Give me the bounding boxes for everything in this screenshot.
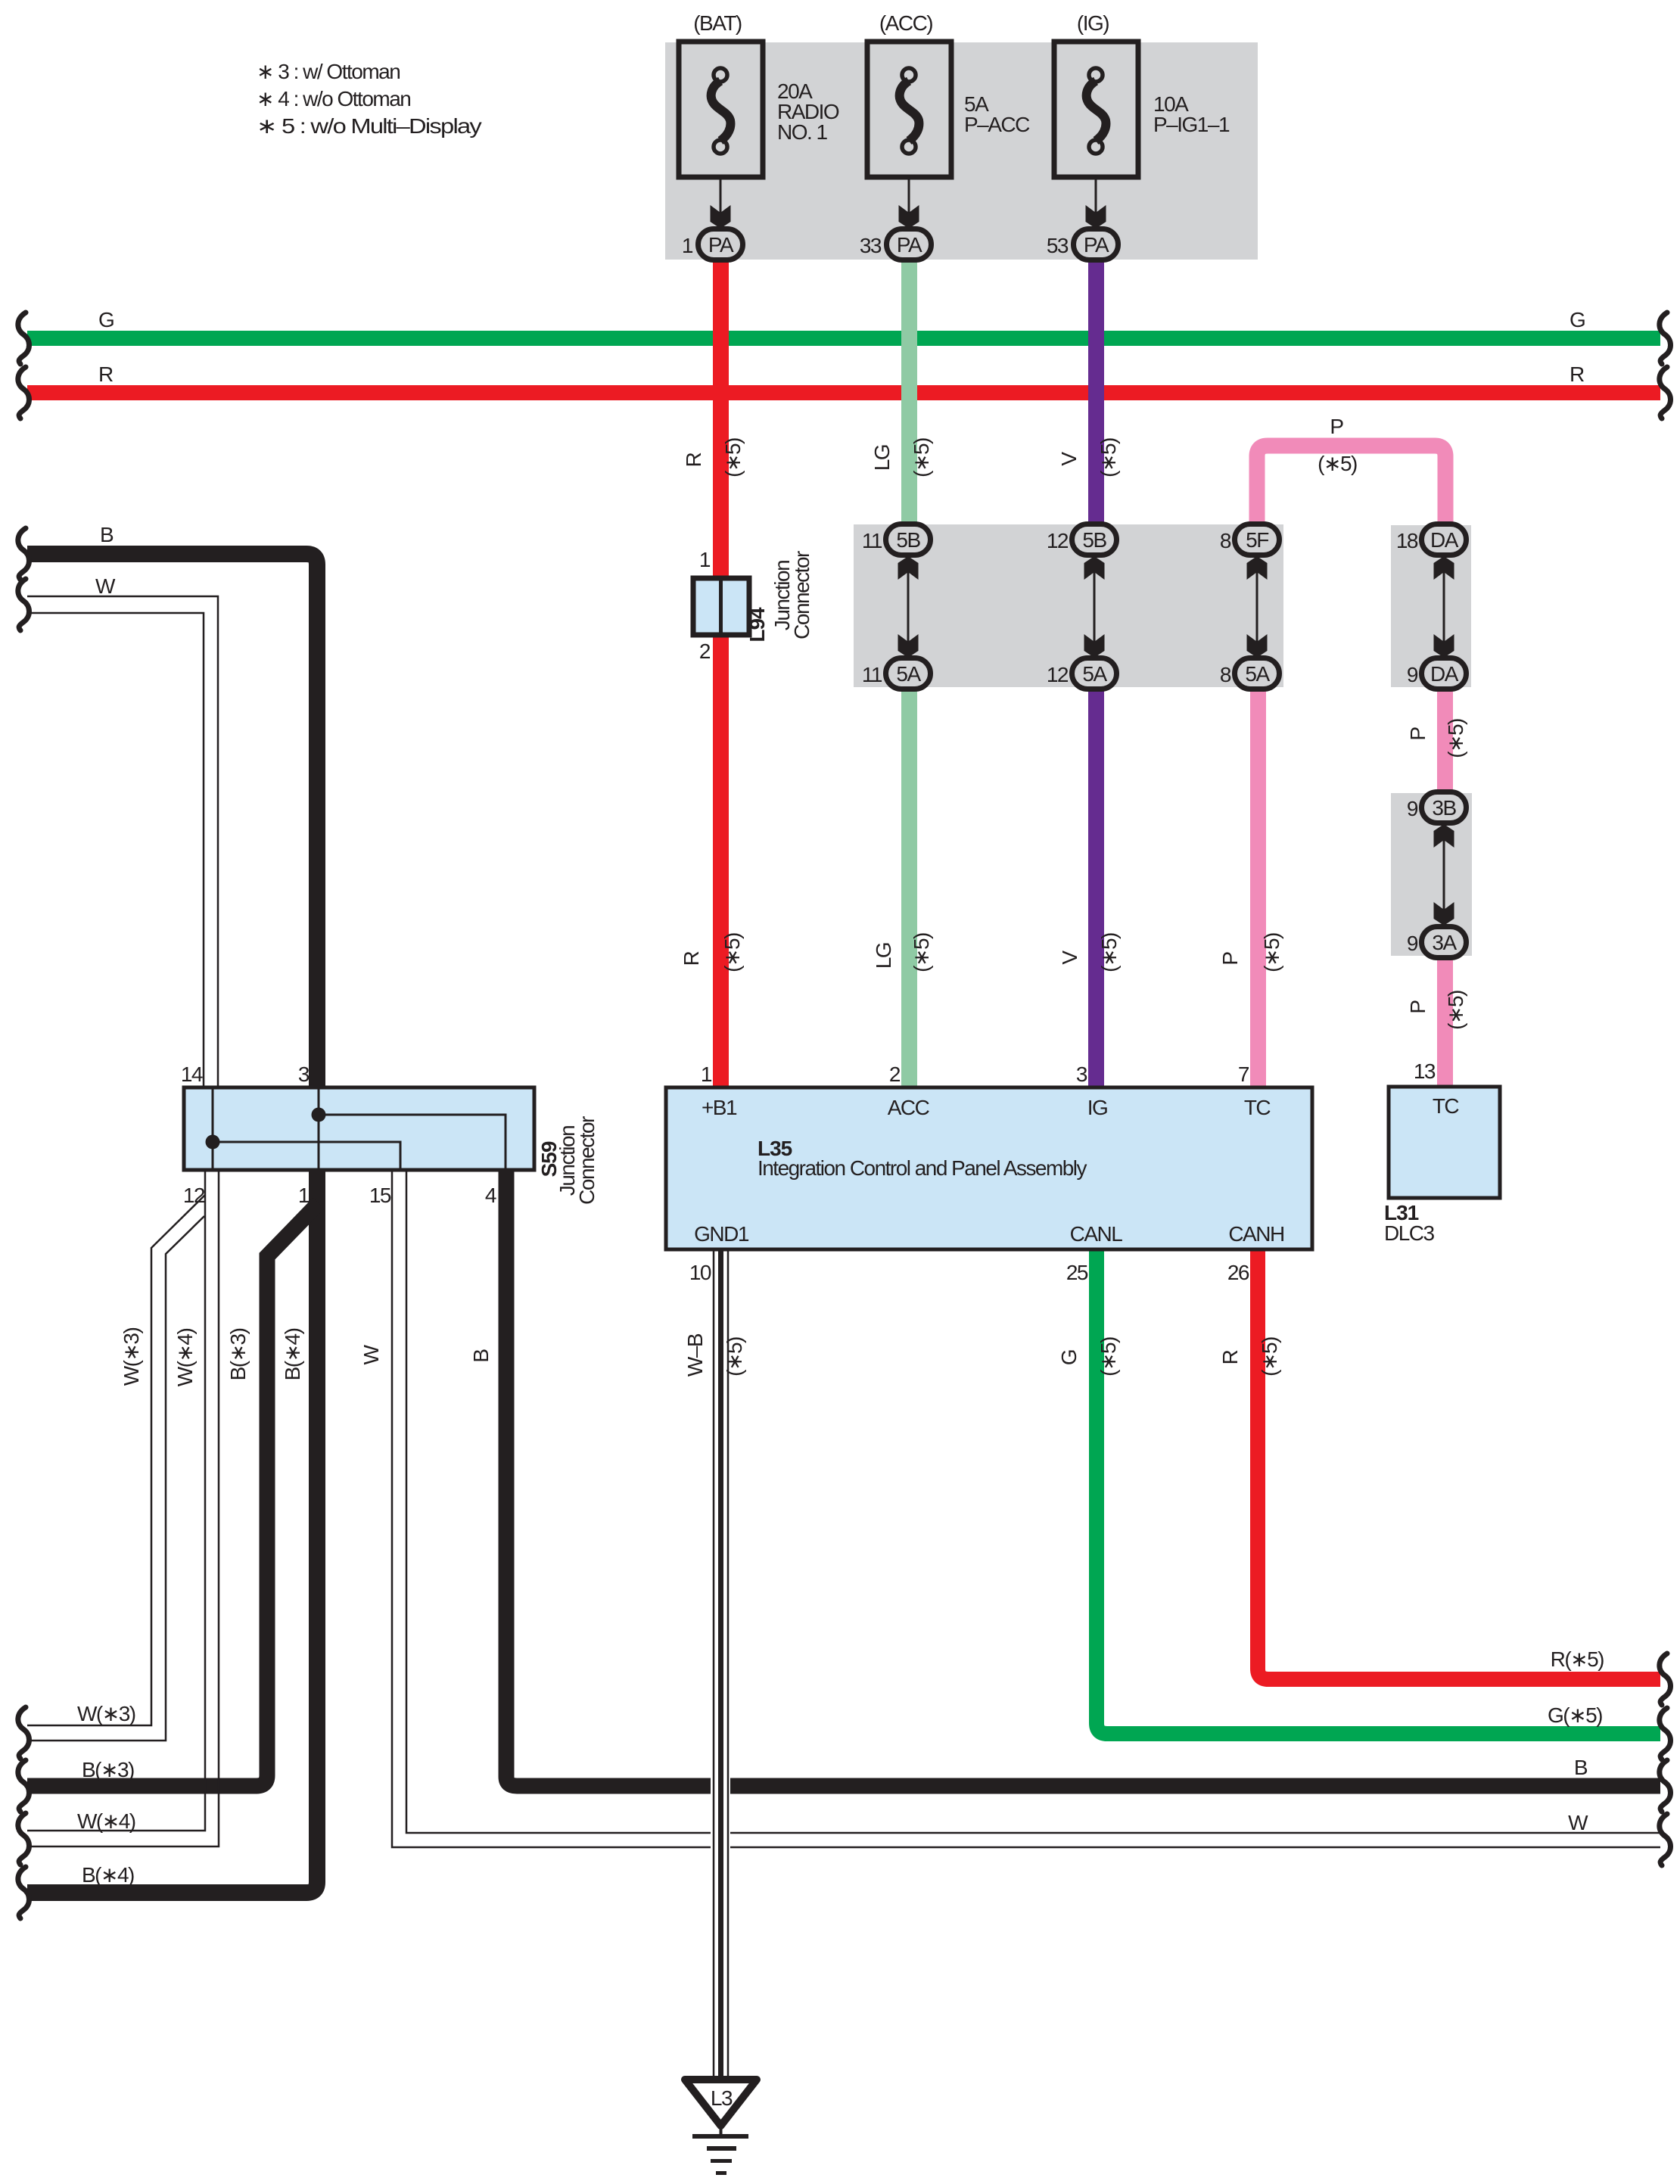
svg-text:W(∗4): W(∗4) [77, 1809, 135, 1833]
svg-text:W–B: W–B [683, 1333, 707, 1377]
svg-text:∗ 3 : w/ Ottoman: ∗ 3 : w/ Ottoman [257, 60, 400, 83]
svg-text:LG: LG [870, 445, 894, 471]
svg-text:P–ACC: P–ACC [964, 113, 1030, 136]
svg-text:TC: TC [1244, 1096, 1271, 1119]
break symbol B(*4) left [18, 1867, 30, 1918]
svg-text:9: 9 [1407, 663, 1418, 686]
ground symbol L3 [685, 2080, 757, 2175]
svg-text:(∗5): (∗5) [723, 1337, 746, 1377]
wire W(*4) (double line) from S59 pin 12 to left edge [27, 1170, 219, 1846]
svg-text:G: G [1057, 1350, 1081, 1365]
svg-text:8: 8 [1220, 663, 1231, 686]
svg-text:IG: IG [1087, 1096, 1108, 1119]
svg-text:7: 7 [1238, 1062, 1249, 1086]
gray panel: junction block DA [1391, 525, 1471, 687]
wire R vertical from PA(1) to L35 +B1 [713, 257, 729, 1087]
svg-text:CANH: CANH [1228, 1222, 1283, 1246]
svg-text:1: 1 [701, 1062, 712, 1086]
connector oval PA pin 1 [682, 229, 743, 260]
svg-text:∗ 5 : w/o Multi–Display: ∗ 5 : w/o Multi–Display [257, 114, 482, 138]
svg-text:12: 12 [1047, 529, 1069, 552]
svg-text:53: 53 [1047, 234, 1069, 257]
svg-text:Connector: Connector [575, 1116, 599, 1205]
svg-text:P: P [1406, 1000, 1430, 1014]
svg-text:P: P [1218, 952, 1242, 966]
svg-text:1: 1 [699, 548, 711, 571]
svg-text:5B: 5B [1082, 528, 1106, 552]
wire B(*3) branch from pin 1 wire to left edge [27, 1203, 319, 1786]
svg-text:P: P [1330, 415, 1343, 438]
svg-text:R: R [1218, 1350, 1242, 1364]
wire B from S59 pin 4 to right edge [506, 1170, 1660, 1786]
svg-text:Connector: Connector [790, 551, 814, 639]
svg-text:G: G [98, 308, 114, 331]
svg-text:∗ 4 : w/o Ottoman: ∗ 4 : w/o Ottoman [257, 87, 410, 110]
svg-text:B: B [1574, 1756, 1588, 1779]
svg-text:B(∗3): B(∗3) [226, 1328, 250, 1380]
junction connector S59 [181, 1062, 599, 1207]
svg-text:G: G [1570, 308, 1585, 331]
arrow from fuse F2 to connector PA pin 33 [899, 177, 919, 229]
wire W-B from L35 GND1 to ground L3 [711, 1249, 730, 2080]
svg-text:DLC3: DLC3 [1384, 1221, 1435, 1245]
svg-text:LG: LG [872, 943, 895, 969]
svg-text:12: 12 [183, 1184, 205, 1207]
arrow from fuse F3 to connector PA pin 53 [1086, 177, 1106, 229]
svg-text:(∗5): (∗5) [720, 933, 744, 972]
svg-text:3: 3 [1076, 1062, 1087, 1086]
svg-text:(∗5): (∗5) [910, 933, 933, 972]
arrow between 5B and 5A (V column) [1084, 555, 1105, 658]
break symbol G right [1660, 313, 1671, 364]
svg-text:P: P [1406, 727, 1430, 741]
svg-text:(∗5): (∗5) [910, 438, 933, 478]
connector oval 5B pin 11 [862, 524, 931, 555]
svg-text:V: V [1058, 950, 1081, 965]
svg-text:9: 9 [1407, 797, 1418, 820]
break symbol G left [18, 313, 30, 364]
svg-text:2: 2 [889, 1062, 901, 1086]
arrow between 5F and 5A (P column) [1247, 555, 1268, 658]
svg-text:DA: DA [1430, 662, 1459, 686]
svg-text:B(∗3): B(∗3) [82, 1758, 134, 1781]
svg-text:26: 26 [1227, 1261, 1249, 1284]
wire W (double line) from S59 pin 15 to right edge [392, 1170, 1660, 1847]
break symbol W left [18, 579, 30, 630]
svg-text:3: 3 [298, 1062, 310, 1086]
connector oval DA pin 18 [1396, 524, 1467, 555]
connector box L31 DLC3 [1384, 1059, 1500, 1245]
svg-text:5A: 5A [1082, 662, 1107, 686]
svg-text:4: 4 [485, 1184, 496, 1207]
svg-text:(∗5): (∗5) [1097, 1337, 1120, 1377]
wire LG vertical from 5A to L35 ACC [901, 681, 917, 1087]
svg-text:11: 11 [862, 529, 882, 552]
svg-text:(∗5): (∗5) [1258, 1337, 1281, 1377]
svg-text:5A: 5A [1245, 662, 1270, 686]
svg-text:PA: PA [708, 233, 734, 257]
ECU box L35 Integration Control and Panel Assembly [666, 1062, 1312, 1284]
svg-text:B(∗4): B(∗4) [281, 1328, 304, 1380]
svg-text:3A: 3A [1432, 931, 1457, 954]
svg-text:R: R [680, 951, 703, 966]
svg-text:CANL: CANL [1070, 1222, 1123, 1246]
svg-text:11: 11 [862, 663, 882, 686]
break symbol B right [1660, 1760, 1671, 1812]
svg-text:W: W [95, 574, 116, 598]
svg-text:DA: DA [1430, 528, 1459, 552]
wire G from L35 CANL to right edge [1097, 1249, 1660, 1734]
wire G horizontal bus [27, 308, 1660, 346]
svg-text:W: W [1568, 1811, 1588, 1834]
svg-text:ACC: ACC [888, 1096, 930, 1119]
arrow between DA and DA [1434, 555, 1454, 658]
wire W (double line) from left edge to S59 pin 14 [27, 596, 218, 1087]
svg-text:9: 9 [1407, 932, 1418, 955]
fuse F3 10A P-IG1-1 (IG) [1054, 11, 1230, 177]
gray panel: junction block 3B/3A [1391, 793, 1472, 956]
fuse F1 20A RADIO NO. 1 (BAT) [679, 11, 839, 177]
arrow between 5B and 5A (LG column) [898, 555, 919, 658]
svg-text:(ACC): (ACC) [879, 11, 932, 35]
gray panel: junction block 5B/5A/5F [854, 524, 1283, 687]
connector oval 5F pin 8 [1220, 524, 1280, 555]
break symbol B left [18, 528, 30, 580]
svg-text:(∗5): (∗5) [1097, 438, 1120, 478]
svg-text:PA: PA [1084, 233, 1109, 257]
svg-text:5B: 5B [896, 528, 920, 552]
svg-text:L94: L94 [745, 607, 769, 642]
svg-text:L3: L3 [711, 2086, 733, 2110]
break symbol R left [18, 367, 30, 418]
break symbol W(*3) left [18, 1707, 30, 1759]
svg-text:5A: 5A [896, 662, 921, 686]
svg-text:25: 25 [1066, 1261, 1088, 1284]
svg-text:33: 33 [860, 234, 882, 257]
wire V vertical from 5A to L35 IG [1088, 681, 1104, 1087]
svg-text:(∗5): (∗5) [1444, 991, 1467, 1030]
wire R horizontal bus [27, 362, 1660, 400]
junction connector L94 [693, 548, 814, 663]
wire W(*3) branch (double line) to left edge [27, 1195, 205, 1741]
connector oval PA pin 53 [1047, 229, 1118, 260]
svg-text:R(∗5): R(∗5) [1551, 1647, 1604, 1671]
break symbol W(*4) left [18, 1813, 30, 1865]
svg-text:R: R [682, 453, 705, 467]
arrow between 3B and 3A [1434, 823, 1454, 926]
break symbol R(*5) right [1660, 1654, 1671, 1705]
break symbol R right [1660, 367, 1671, 418]
break symbol B(*3) left [18, 1760, 30, 1812]
svg-text:B: B [100, 523, 114, 546]
svg-text:TC: TC [1433, 1094, 1460, 1118]
connector oval PA pin 33 [860, 229, 932, 260]
svg-text:(IG): (IG) [1077, 11, 1109, 35]
connector oval 3A pin 9 [1407, 927, 1467, 958]
wire P bridge from 5F to DA [1257, 446, 1445, 531]
arrow from fuse F1 to connector PA pin 1 [711, 177, 731, 229]
svg-text:12: 12 [1047, 663, 1069, 686]
svg-text:(∗5): (∗5) [1444, 719, 1467, 758]
svg-text:15: 15 [369, 1184, 391, 1207]
wire B(*4) from S59 pin 1 to left edge [27, 1170, 317, 1893]
svg-text:5F: 5F [1246, 528, 1268, 552]
break symbol W right [1660, 1814, 1671, 1865]
svg-text:R: R [1570, 362, 1584, 386]
svg-text:(∗5): (∗5) [721, 438, 745, 478]
svg-text:G(∗5): G(∗5) [1548, 1703, 1602, 1727]
wire V vertical from PA(53) to 5B [1088, 257, 1104, 531]
gray panel: fuse block strip [665, 42, 1258, 260]
svg-text:R: R [98, 362, 113, 386]
connector oval DA pin 9 [1407, 658, 1467, 689]
svg-text:(BAT): (BAT) [693, 11, 742, 35]
svg-text:(∗5): (∗5) [1318, 452, 1357, 475]
svg-text:(∗5): (∗5) [1097, 933, 1121, 972]
fuse F2 5A P-ACC (ACC) [867, 11, 1030, 177]
wire B from left edge to S59 pin 3 [27, 554, 317, 1087]
svg-text:(∗5): (∗5) [1260, 933, 1283, 972]
svg-text:1: 1 [682, 234, 693, 257]
svg-text:P–IG1–1: P–IG1–1 [1153, 113, 1230, 136]
wire LG vertical from PA(33) to 5B [901, 257, 917, 531]
svg-text:W(∗3): W(∗3) [120, 1328, 143, 1386]
svg-text:B: B [469, 1349, 493, 1363]
svg-text:18: 18 [1396, 529, 1418, 552]
svg-text:V: V [1057, 452, 1081, 466]
break symbol G(*5) right [1660, 1708, 1671, 1759]
svg-text:13: 13 [1414, 1059, 1436, 1083]
svg-text:W: W [359, 1344, 383, 1364]
svg-text:14: 14 [181, 1062, 203, 1086]
svg-text:3B: 3B [1432, 796, 1456, 820]
svg-text:Integration Control and Panel: Integration Control and Panel Assembly [758, 1156, 1087, 1180]
svg-text:GND1: GND1 [694, 1222, 749, 1246]
connector oval 5B pin 12 [1047, 524, 1117, 555]
svg-text:1: 1 [298, 1184, 310, 1207]
connector oval 5A pin 8 [1220, 658, 1280, 689]
wire P vertical from 3A to L31 TC [1437, 952, 1453, 1087]
svg-text:NO. 1: NO. 1 [777, 120, 828, 144]
svg-text:W(∗3): W(∗3) [77, 1702, 135, 1725]
svg-text:W(∗4): W(∗4) [173, 1329, 197, 1387]
connector oval 5A pin 11 [862, 658, 931, 689]
svg-text:10: 10 [689, 1261, 711, 1284]
connector oval 5A pin 12 [1047, 658, 1117, 689]
svg-text:2: 2 [699, 639, 711, 663]
connector oval 3B pin 9 [1407, 792, 1467, 823]
svg-text:B(∗4): B(∗4) [82, 1863, 134, 1887]
wire P vertical from 5A to L35 TC [1250, 681, 1266, 1087]
svg-text:+B1: +B1 [702, 1096, 737, 1119]
wire R(*5) from L35 CANH to right edge [1258, 1249, 1660, 1679]
svg-text:8: 8 [1220, 529, 1231, 552]
svg-text:PA: PA [897, 233, 922, 257]
wire P vertical from DA to 3B [1437, 681, 1453, 798]
